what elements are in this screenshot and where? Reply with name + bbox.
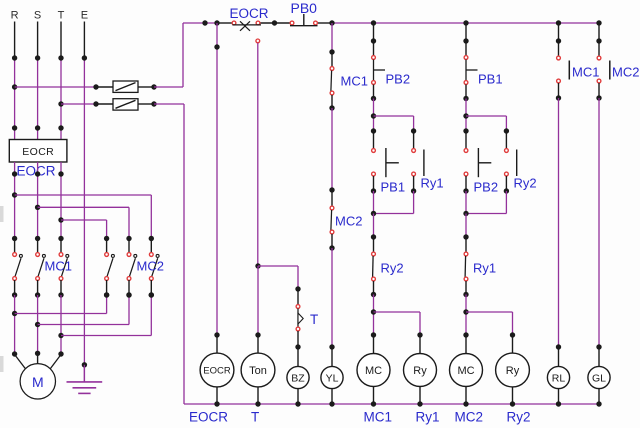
svg-text:T: T [58, 10, 65, 22]
pushbutton PB1 (NC, MC2 branch) [463, 23, 477, 101]
wire merge to interlock (MC1 branch) [373, 214, 375, 238]
svg-text:MC1: MC1 [341, 74, 368, 89]
lamp YL [321, 366, 343, 388]
wire Ton coil to neutral [255, 387, 260, 407]
wire MC1 contact to RL [556, 98, 561, 366]
wire EOCR coil branch [214, 23, 219, 353]
wire MC2 pole2 return to S phase [38, 292, 132, 324]
terminal R [11, 10, 19, 22]
coil Ton timer [241, 353, 275, 387]
coil Ry (Ry1) [404, 354, 437, 387]
svg-text:RL: RL [552, 373, 566, 385]
wire YL branch top [329, 23, 334, 55]
label MC1 (bottom) [364, 410, 393, 425]
contactor MC1 pole 1 (R) [12, 239, 22, 298]
svg-text:PB1: PB1 [478, 72, 503, 87]
timer contact T (NO delayed) [296, 305, 303, 331]
label PB1 (MC1 branch) [381, 180, 406, 195]
svg-text:Ry: Ry [413, 365, 427, 377]
svg-text:PB1: PB1 [381, 180, 406, 195]
control neutral rail (bottom) [184, 104, 599, 404]
svg-text:M: M [32, 374, 44, 390]
coil MC (MC1) [357, 354, 390, 387]
svg-text:MC1: MC1 [572, 65, 599, 80]
svg-text:MC2: MC2 [612, 65, 639, 80]
wire YL to neutral [329, 389, 334, 407]
svg-text:E: E [81, 10, 88, 22]
svg-text:EOCR: EOCR [189, 410, 228, 425]
contact MC2 (NO, GL branch) [596, 23, 610, 101]
coil Ry (Ry2) [496, 353, 530, 387]
wire T contact to BZ [295, 331, 300, 366]
wire R to MC2 pole3 [15, 195, 154, 241]
wire fuse F1 to control hot rail [138, 23, 183, 90]
label T (bottom) [251, 410, 259, 425]
contact Ry2 (NO, holding) [504, 128, 517, 193]
wire MC2 contact to YL [329, 248, 334, 366]
wire fuse F2 to control neutral rail [138, 101, 184, 106]
contactor MC1 pole 2 (S) [35, 239, 46, 298]
wire merge to interlock (MC2 branch) [465, 214, 467, 238]
wire phase T drop [58, 22, 63, 140]
wire Ton branch from EOCR 98 terminal [255, 43, 260, 353]
label EOCR (power) [17, 164, 56, 179]
svg-text:MC: MC [365, 365, 382, 377]
svg-text:EOCR: EOCR [203, 366, 231, 377]
label PB0 [291, 0, 318, 16]
label PB2 [386, 72, 411, 87]
svg-text:MC1: MC1 [45, 259, 72, 274]
label EOCR (trip contact) [230, 6, 269, 21]
wire R to motor [12, 295, 17, 357]
svg-text:YL: YL [326, 373, 339, 385]
wire EOCR coil to neutral [214, 387, 219, 407]
svg-text:T: T [310, 312, 318, 327]
svg-text:PB2: PB2 [474, 180, 499, 195]
svg-text:GL: GL [592, 373, 606, 385]
wire earth E drop [82, 22, 87, 382]
svg-text:Ry2: Ry2 [514, 176, 537, 191]
svg-text:MC1: MC1 [364, 410, 393, 425]
wire T to MC2 pole1 [61, 220, 109, 241]
contact MC1 (NO, RL branch) [556, 23, 570, 101]
wire MC2 coil to neutral [463, 386, 468, 406]
fuse F1 [113, 81, 138, 92]
terminal S [34, 10, 41, 22]
wire fuse feed from R [15, 84, 113, 89]
svg-text:EOCR: EOCR [230, 6, 269, 21]
fuse F2 [113, 99, 138, 110]
contact Ry1 (interlock, MC2 branch) [463, 234, 468, 297]
edge artifact marks [0, 206, 4, 372]
ground symbol [67, 365, 103, 394]
svg-text:Ry1: Ry1 [473, 261, 496, 276]
wire to parallel split (MC2 branch) [463, 99, 468, 132]
terminal E [81, 10, 88, 22]
label Ry2 (interlock MC1 branch) [381, 261, 404, 276]
wire Ry coil branch (group1) [374, 312, 423, 354]
svg-text:PB0: PB0 [291, 0, 318, 16]
contact MC2 (NO, YL branch) [329, 190, 334, 251]
wire interlock to MC2 coil split [463, 295, 468, 354]
label PB1 (MC2 branch top) [478, 72, 503, 87]
label MC2 (YL branch) [335, 214, 362, 229]
svg-text:MC: MC [457, 365, 474, 377]
contact Ry1 (NO, holding) [411, 128, 424, 193]
contactor MC1 pole 3 (T) [58, 239, 69, 298]
svg-text:MC2: MC2 [335, 214, 362, 229]
label Ry1 (holding contact) [421, 176, 444, 191]
label MC2 (bottom) [455, 410, 484, 425]
wire RL to neutral [556, 389, 561, 407]
relay EOCR overload block [9, 140, 67, 163]
label MC1 (RL branch) [572, 65, 599, 80]
svg-text:T: T [251, 410, 259, 425]
wire R below EOCR [12, 162, 17, 241]
wire to parallel split (MC1 branch) [371, 99, 376, 132]
pushbutton PB1 (NO, MC1 branch) [371, 128, 399, 193]
terminal T [58, 10, 65, 22]
svg-text:Ry2: Ry2 [507, 410, 531, 425]
coil MC (MC2) [450, 354, 483, 387]
wire GL to neutral [596, 389, 601, 407]
wire MC2 pole3 return to R phase [15, 292, 110, 313]
wire Ry1 coil to neutral [417, 386, 422, 406]
label Ry1 (interlock MC2 branch) [473, 261, 496, 276]
label T (timer contact) [310, 312, 318, 327]
pushbutton PB2 (NC, MC1 branch) [371, 23, 385, 101]
motor M [15, 353, 61, 399]
label PB2 (MC2 branch) [474, 180, 499, 195]
contact Ry2 (interlock, MC1 branch) [371, 234, 376, 297]
wire interlock to MC coil split [371, 295, 376, 354]
svg-text:Ry: Ry [506, 365, 520, 377]
contact MC1 (NO, YL branch) [329, 52, 334, 111]
label MC1 (YL branch) [341, 74, 368, 89]
svg-text:Ton: Ton [249, 365, 267, 377]
wire S below EOCR [35, 162, 40, 241]
label EOCR (bottom) [189, 410, 228, 425]
lamp GL [588, 366, 610, 388]
svg-text:PB2: PB2 [386, 72, 411, 87]
wire Ry2 coil to neutral [510, 387, 515, 407]
wire S to MC2 pole2 [38, 207, 132, 241]
label MC1 (power contacts) [45, 259, 72, 274]
coil BZ buzzer [287, 366, 309, 388]
wire parallel branch top (Ry2) [466, 116, 506, 131]
label MC2 (GL branch) [612, 65, 639, 80]
svg-text:Ry2: Ry2 [381, 261, 404, 276]
wire fuse feed from T [61, 101, 113, 106]
wire MC1 coil to neutral [371, 386, 376, 406]
label MC2 (power contacts) [137, 259, 164, 274]
svg-text:MC2: MC2 [137, 259, 164, 274]
svg-text:MC2: MC2 [455, 410, 484, 425]
wire phase R drop [12, 22, 17, 140]
wire Ry coil branch (group2) [466, 312, 515, 354]
wire T below EOCR [58, 162, 63, 241]
label Ry2 (bottom) [507, 410, 531, 425]
wire BZ to neutral [295, 389, 300, 407]
wire parallel merge (MC1 branch) [371, 191, 414, 216]
lamp RL [547, 366, 569, 388]
coil EOCR [200, 353, 234, 387]
svg-text:S: S [34, 10, 41, 22]
wire parallel branch top (Ry1) [374, 116, 414, 131]
wire S to motor [35, 295, 40, 356]
svg-text:Ry1: Ry1 [416, 410, 440, 425]
svg-text:R: R [11, 10, 19, 22]
svg-text:BZ: BZ [291, 373, 305, 385]
overload relay EOCR NC trip contact [232, 21, 261, 43]
pushbutton PB0 (NO, stop) [290, 14, 318, 26]
pushbutton PB2 (NO, MC2 branch) [463, 128, 491, 193]
svg-text:EOCR: EOCR [22, 146, 54, 158]
control hot rail (top) [183, 20, 602, 25]
wire phase S drop [35, 22, 40, 140]
wire MC2 contact to GL [596, 98, 601, 366]
wire buzzer branch [258, 266, 301, 305]
contactor MC2 pole 2 [126, 239, 137, 298]
wire T to motor [58, 295, 63, 357]
svg-text:Ry1: Ry1 [421, 176, 444, 191]
label Ry2 (holding contact) [514, 176, 537, 191]
wire parallel merge (MC2 branch) [463, 191, 506, 216]
wire between MC1 and MC2 contacts [329, 108, 334, 193]
contactor MC2 pole 3 [149, 239, 160, 298]
wire MC2 pole1 return to T phase [61, 292, 154, 335]
contactor MC2 pole 1 [104, 239, 115, 298]
label Ry1 (bottom) [416, 410, 440, 425]
